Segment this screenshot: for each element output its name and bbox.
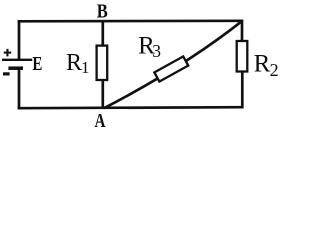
battery E long plate (+) <box>2 59 32 61</box>
resistor R3 body <box>154 56 188 81</box>
wire R1 top (node B down to R1) <box>101 21 104 47</box>
svg-text:2: 2 <box>270 60 279 80</box>
wire left edge lower (battery to bottom-left corner) <box>18 68 21 109</box>
wire bottom (A rail) <box>18 107 244 108</box>
wire right edge upper (top-right corner to R2) <box>241 20 244 42</box>
battery E short plate (-) <box>8 66 23 70</box>
svg-text:R: R <box>254 50 271 77</box>
svg-text:E: E <box>32 53 42 75</box>
battery minus sign <box>3 72 10 75</box>
svg-text:3: 3 <box>152 41 161 61</box>
svg-text:A: A <box>95 110 106 132</box>
resistor R2 body <box>237 41 248 72</box>
wire right edge lower (R2 to bottom-right corner) <box>241 71 244 108</box>
svg-text:1: 1 <box>81 58 90 77</box>
wire top (B rail) <box>18 19 244 22</box>
resistor R1 body <box>97 46 108 80</box>
wire R3 diagonal (node A to top-right corner) <box>104 21 242 108</box>
svg-text:B: B <box>97 1 108 22</box>
battery plus sign <box>4 49 12 57</box>
wire R1 bottom (R1 down to node A) <box>101 79 104 108</box>
svg-text:R: R <box>66 50 82 76</box>
wire left edge upper (top-left corner to battery + plate) <box>18 20 21 60</box>
